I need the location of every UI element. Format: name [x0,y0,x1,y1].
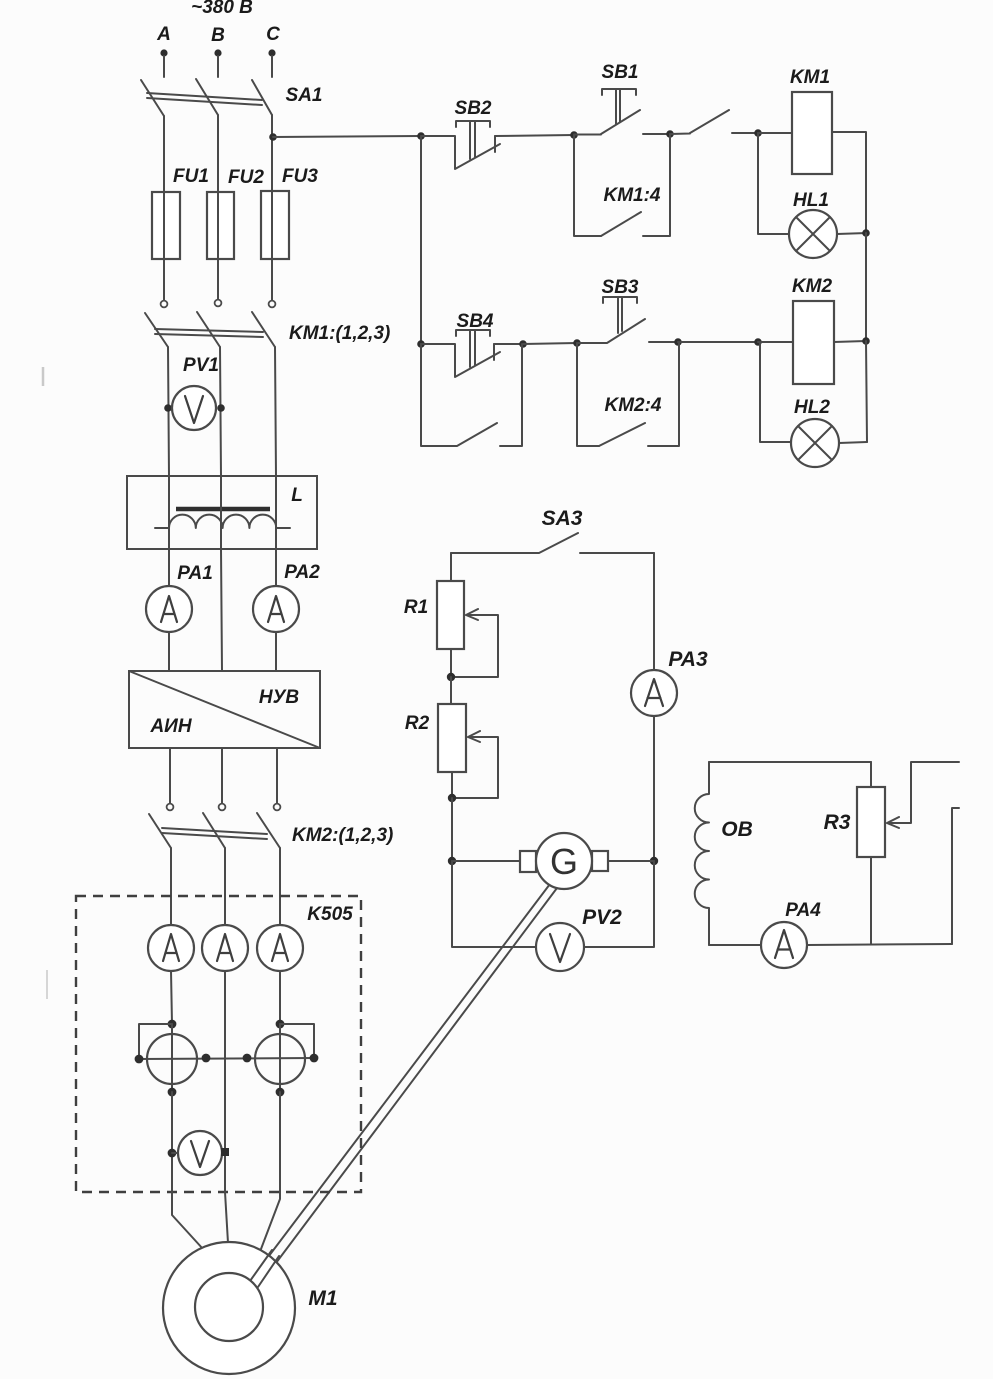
svg-text:A: A [156,24,171,45]
node rung1 junction [570,131,578,139]
node junction SA1-C to control circuit [269,133,277,141]
resistor R2 [438,704,466,772]
svg-text:FU1: FU1 [173,166,209,187]
button SB3 NO contact blade [577,319,645,343]
wire V meter left [172,1152,179,1154]
contact KM1:4 left wire [574,135,601,236]
wire phase C to motor [261,1192,280,1249]
node control branch junction [417,132,425,140]
wire phase C SA1 to FU3 [271,115,273,191]
resistor R1 wiper [451,609,498,677]
node chord mid-left [202,1054,211,1063]
svg-text:ОВ: ОВ [721,818,753,841]
svg-text:SB1: SB1 [602,62,639,83]
contactor KM2 pole C blade [257,813,280,848]
contactor KM1 pole B open terminal [215,300,222,307]
wire phase A through FU1 [163,192,165,300]
contactor KM1 coupling bar [155,329,263,337]
button SB4 actuator [456,330,490,367]
wire phase B stub [217,56,219,77]
node rung1 junction 2 [666,130,674,138]
svg-text:M1: M1 [308,1287,337,1310]
node rung2 junction 1 [519,340,527,348]
wire wattmeter2 voltage bracket [280,1024,314,1058]
button SB2 NC contact [421,136,500,169]
wire to control circuit [273,136,421,137]
svg-text:PV1: PV1 [183,355,219,376]
contactor KM1 pole A open terminal [161,301,168,308]
button SB2 actuator [456,121,490,159]
node right rail KM2 [862,337,870,345]
svg-text:KM2:4: KM2:4 [604,395,661,416]
contact parallel SB4 [421,344,522,446]
coil KM1 [792,92,832,174]
svg-text:KM2:(1,2,3): KM2:(1,2,3) [292,825,393,846]
node B terminal dot [214,49,221,56]
svg-text:L: L [291,485,303,506]
wire phase C L to PA2 [275,549,277,586]
svg-text:НУВ: НУВ [259,687,300,708]
wire phase C wattmeter down [279,1092,281,1192]
svg-text:G: G [550,841,578,882]
wire phase C KM2 into K505 [279,848,281,925]
svg-text:C: C [266,24,280,45]
reactor L core bar [176,507,270,512]
wire phase C through wattmeter2 [279,1024,281,1092]
svg-text:HL2: HL2 [794,397,830,418]
wire phase B through L [220,476,222,549]
svg-text:АИН: АИН [149,716,192,737]
lamp HL1 [789,210,837,258]
svg-text:PA1: PA1 [177,563,213,584]
node right rail HL1 [862,229,870,237]
svg-text:B: B [211,25,225,46]
wire HL2 to right rail [839,442,867,443]
svg-text:K505: K505 [307,904,353,925]
wire wattmeter voltage chord [139,1058,314,1059]
node wattmeter1 bottom [168,1088,177,1097]
voltmeter PV2 [536,923,584,971]
wire phase C through L [275,476,277,549]
wire phase A stub [163,56,165,77]
wire SA3 down to R1 [450,553,452,581]
switch SA1 pole C blade [252,80,272,115]
wire OB top rail [709,761,871,763]
contactor KM1 pole B blade [197,312,220,347]
wire SB4 to node [494,343,523,345]
node V meter left [168,1149,177,1158]
node R2 bottom [448,794,456,802]
wire phase C ammeter to wattmeter [279,971,281,1024]
switch SA1 coupling bar [147,93,262,105]
wire phase B KM2 into K505 [224,848,226,925]
stray mark left margin [42,367,45,386]
wire PA3 down to G right node [653,716,655,861]
svg-text:SB2: SB2 [455,98,492,119]
contact NO series rung1 [670,110,758,134]
wire HL2 branch left [760,342,791,442]
wire node down to G rail [451,798,453,861]
wire phase C AIN to KM2 [276,748,278,803]
fuse FU2 [207,192,234,259]
ammeter PA1 [146,586,192,632]
wire phase A ammeter to wattmeter [171,971,172,1024]
node wattmeter2 top [276,1020,285,1029]
wire PA4 to right bottom rail [807,944,952,945]
svg-text:SA3: SA3 [542,507,583,530]
wire junction down to second rung [420,136,422,344]
wire phase A KM1 to L [168,347,169,476]
contactor KM2 pole A open terminal [167,804,174,811]
ammeter PA2 [253,586,299,632]
node PV1 left dot [164,404,172,412]
wire G right rail [608,860,654,862]
wire SB1 to node [643,133,670,135]
node rung2 junction 4 [754,338,762,346]
shaft G to M1 [250,880,560,1287]
wire to SB3 [523,343,577,344]
wire rung2 to KM2 coil node [678,341,758,343]
contact KM2:4 blade [599,423,645,446]
switch SA1 pole A blade [141,80,164,116]
wire OB bottom rail to PA4 [709,944,761,946]
wire phase B AIN to KM2 [221,748,223,803]
wire SA3 down to PA3 [653,553,655,670]
wire phase C PA2 to AIN [275,632,277,671]
resistor R3 [857,787,885,857]
node chord mid-right [243,1054,252,1063]
contactor KM1 pole C blade [252,312,275,347]
node wattmeter1 top [168,1020,177,1029]
wire phase A PA1 to AIN [168,632,170,671]
wattmeter phase A [147,1034,197,1084]
switch SA3 [451,533,654,553]
contactor KM2 pole C open terminal [274,804,281,811]
wire phase A wattmeter to V [171,1092,173,1192]
node V meter right square [221,1148,229,1156]
wire HL1 branch left [758,133,789,234]
node C terminal dot [268,49,275,56]
wire right return [952,808,959,944]
motor M1 inner [195,1273,263,1341]
svg-text:R2: R2 [405,713,430,734]
wire right rail down [865,233,867,341]
node G right [650,857,658,865]
node chord right end [310,1054,319,1063]
svg-text:FU3: FU3 [282,166,318,187]
wire KM2 coil to right rail [834,341,866,342]
svg-text:HL1: HL1 [793,190,829,211]
voltmeter PV1 [172,386,216,430]
wire phase A to motor [172,1192,203,1249]
contactor KM2 pole A blade [149,814,171,848]
wire wattmeter1 voltage bracket [139,1024,172,1059]
wire phase A through wattmeter1 [171,1024,173,1092]
node A terminal dot [160,49,167,56]
svg-text:KM2: KM2 [792,276,833,297]
generator G brushes [520,851,536,872]
wire phase A SA1 to FU1 [163,116,165,192]
node R1-R2 [447,673,455,681]
ammeter PA3 [631,670,677,716]
generator G [536,833,592,889]
node rung2 left junction [417,340,425,348]
ammeter A phase B [202,925,248,971]
node G left [448,857,456,865]
svg-text:R3: R3 [824,811,851,834]
wire phase A through L [168,476,170,549]
contact KM2:4 left wire [577,343,599,446]
wire phase B through K505 [224,971,226,1192]
voltmeter V K505 [178,1131,222,1175]
resistor R3 wiper [887,762,959,828]
contact KM1:4 blade [601,212,641,236]
button SB1 NO contact blade [574,110,640,135]
resistor R1 [437,581,464,649]
svg-text:R1: R1 [404,597,428,618]
measurement block K505 dashed box [76,896,361,1192]
inverter block AIN/NUV [129,671,320,748]
wire R3 bottom [870,857,872,944]
wire right side down to PV2 rail [584,861,654,947]
wire node to R2 [450,677,452,704]
svg-text:FU2: FU2 [228,167,264,188]
wire phase B SA1 to FU2 [217,115,219,192]
contactor KM1 pole C open terminal [269,301,276,308]
svg-text:PV2: PV2 [582,906,622,929]
ammeter A phase C [257,925,303,971]
lamp HL2 [791,419,839,467]
wire phase A KM2 into K505 [170,848,172,925]
contactor KM2 pole B blade [203,813,225,848]
wire to KM2 coil [758,341,793,343]
svg-text:SA1: SA1 [286,85,323,106]
wire phase A AIN to KM2 [169,748,171,803]
coil KM2 [793,301,834,384]
contactor KM1 pole A blade [145,313,168,347]
node chord left end [135,1055,144,1064]
wattmeter phase C [255,1034,305,1084]
button SB1 actuator [602,89,636,124]
reactor L box [127,476,317,549]
wire phase A L to PA1 [168,549,170,586]
wire phase B to motor [225,1192,228,1243]
button SB3 actuator [603,297,637,333]
fuse FU1 [152,192,180,259]
contactor KM2 pole B open terminal [219,804,226,811]
svg-text:SB3: SB3 [602,277,639,298]
node rung2 junction 3 [674,338,682,346]
wire R3 top [870,762,872,787]
svg-text:PA2: PA2 [284,562,320,583]
svg-text:SB4: SB4 [457,311,494,332]
field winding OB [695,762,709,945]
node rung1 junction 3 [754,129,762,137]
svg-text:PA3: PA3 [668,648,708,671]
svg-text:KM1:(1,2,3): KM1:(1,2,3) [289,323,390,344]
reactor L winding [155,515,290,528]
resistor R2 wiper [452,731,498,798]
contact KM2:4 right wire [648,342,679,446]
wire phase B L to AIN [221,549,222,671]
wire R2 to node [451,772,453,798]
node PV1 right dot [217,404,225,412]
wire phase B KM1 to L [220,347,221,476]
motor M1 outer [163,1242,295,1374]
wire HL1 to right rail [837,233,867,234]
wire phase C through FU3 [271,191,273,300]
wire to KM1 coil [758,132,792,134]
ammeter A phase A [148,925,194,971]
wire left side down to PV2 rail [452,861,536,947]
contact KM1:4 right wire [643,134,670,236]
svg-text:KM1:4: KM1:4 [603,185,660,206]
ammeter PA4 [761,922,807,968]
svg-text:KM1: KM1 [790,67,830,88]
wire phase C KM1 to L [275,347,276,476]
wire V meter right [222,1152,225,1153]
svg-text:PA4: PA4 [785,900,821,921]
wire SB2 to SB1 [495,135,574,136]
node wattmeter2 bottom [276,1088,285,1097]
wire phase C stub [271,56,273,77]
wire G left rail [452,860,520,862]
wire SB3 to node [649,341,678,343]
wire phase B through FU2 [217,192,219,299]
node rung2 junction 2 [573,339,581,347]
button SB4 NC contact [421,344,500,377]
shaft end through motor ring [250,1250,279,1287]
wire right rail down to HL2 [866,341,867,442]
switch SA1 pole B blade [196,79,218,115]
fuse FU3 [261,191,289,259]
svg-text:~380 В: ~380 В [191,0,253,18]
wire KM1 coil to right rail [832,132,866,233]
contactor KM2 coupling bar [162,828,267,839]
wire R1 to node [450,649,452,677]
